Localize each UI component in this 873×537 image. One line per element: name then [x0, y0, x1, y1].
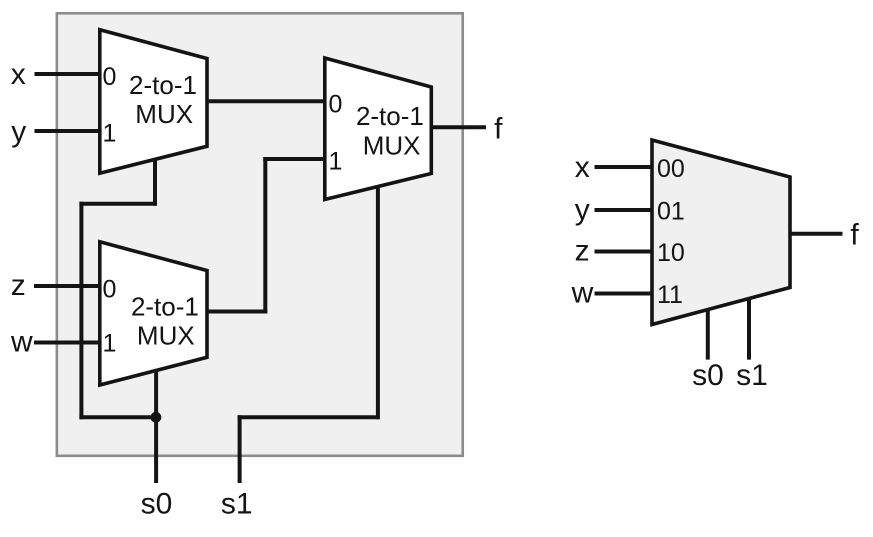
svg-text:0: 0	[103, 276, 117, 304]
svg-text:w: w	[10, 326, 33, 359]
svg-text:00: 00	[657, 155, 685, 183]
wire s1 select stub right	[747, 292, 751, 360]
wire y input	[35, 129, 105, 133]
svg-text:s1: s1	[736, 359, 768, 392]
junction dot	[151, 412, 162, 423]
wire into U3 input 1	[263, 157, 328, 161]
svg-text:y: y	[11, 116, 26, 149]
svg-text:1: 1	[103, 120, 117, 148]
wire U1 select stub down	[153, 150, 157, 206]
svg-text:1: 1	[103, 330, 117, 358]
svg-text:MUX: MUX	[363, 130, 421, 160]
wire s0 vertical through junction	[154, 365, 158, 483]
mux U1 2-to-1	[100, 30, 207, 174]
svg-text:f: f	[494, 113, 503, 146]
svg-text:s0: s0	[692, 359, 724, 392]
svg-text:0: 0	[103, 63, 117, 91]
wire s1 vertical stub	[238, 415, 242, 483]
svg-text:2-to-1: 2-to-1	[356, 101, 424, 131]
wire f output right	[788, 232, 843, 236]
wire U2 output segment	[205, 310, 267, 314]
wire z input right	[595, 250, 657, 254]
wire f output	[429, 125, 486, 129]
wire select down left side	[79, 202, 83, 420]
mux U4 4-to-1	[652, 140, 790, 325]
svg-text:s1: s1	[221, 488, 253, 521]
wire x input right	[595, 165, 657, 169]
wire w input	[34, 341, 104, 345]
svg-text:x: x	[575, 151, 590, 184]
svg-text:x: x	[11, 58, 26, 91]
wire select jog left	[79, 202, 157, 206]
svg-text:01: 01	[657, 198, 685, 226]
svg-text:s0: s0	[141, 488, 173, 521]
enclosing box	[57, 13, 463, 456]
wire s1 horizontal run	[238, 415, 380, 419]
svg-text:z: z	[11, 269, 26, 302]
wire w input right	[595, 292, 657, 296]
svg-text:z: z	[575, 235, 590, 268]
mux U3 2-to-1	[325, 58, 432, 200]
svg-text:MUX: MUX	[135, 99, 193, 129]
wire x input	[35, 72, 105, 76]
svg-text:1: 1	[329, 147, 343, 175]
wire U1 output to U3 input 0	[205, 99, 328, 103]
wire vertical riser to U3 input 1	[263, 157, 267, 314]
wire s1 up to U3 select	[376, 180, 380, 419]
wire z input	[34, 284, 104, 288]
wire y input right	[595, 208, 657, 212]
svg-text:MUX: MUX	[137, 321, 195, 351]
svg-text:y: y	[575, 194, 590, 227]
wire select bottom run to junction	[79, 415, 156, 419]
wire s0 select stub right	[706, 300, 710, 360]
svg-text:2-to-1: 2-to-1	[131, 291, 199, 321]
svg-text:w: w	[571, 277, 594, 310]
mux U2 2-to-1	[100, 242, 207, 385]
svg-text:10: 10	[657, 239, 685, 267]
svg-text:2-to-1: 2-to-1	[129, 70, 197, 100]
svg-text:f: f	[850, 218, 859, 251]
svg-text:0: 0	[329, 91, 343, 119]
svg-text:11: 11	[657, 281, 683, 309]
